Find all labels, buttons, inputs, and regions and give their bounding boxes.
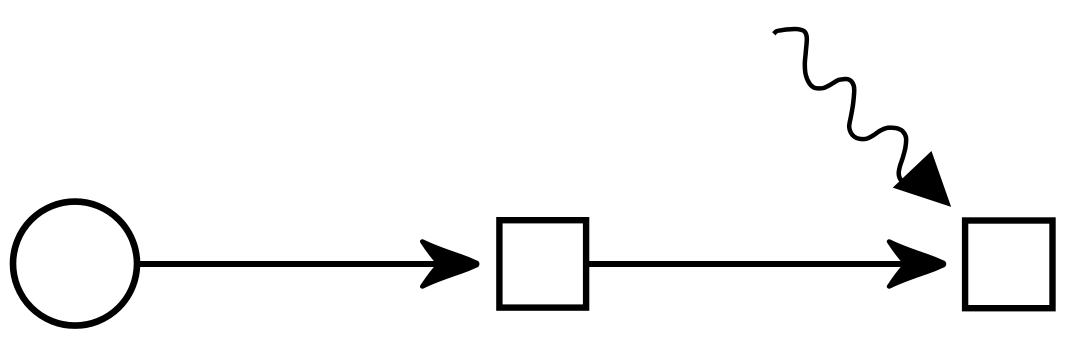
wavy wire — [774, 29, 918, 187]
wire — [589, 261, 922, 267]
wire — [140, 261, 455, 267]
square node 2 — [965, 221, 1052, 309]
arrowhead 2 — [887, 240, 945, 288]
square node 1 — [499, 220, 586, 307]
arrowhead 1 — [420, 240, 478, 288]
triangle arrowhead — [894, 152, 951, 207]
circle node — [13, 202, 137, 326]
